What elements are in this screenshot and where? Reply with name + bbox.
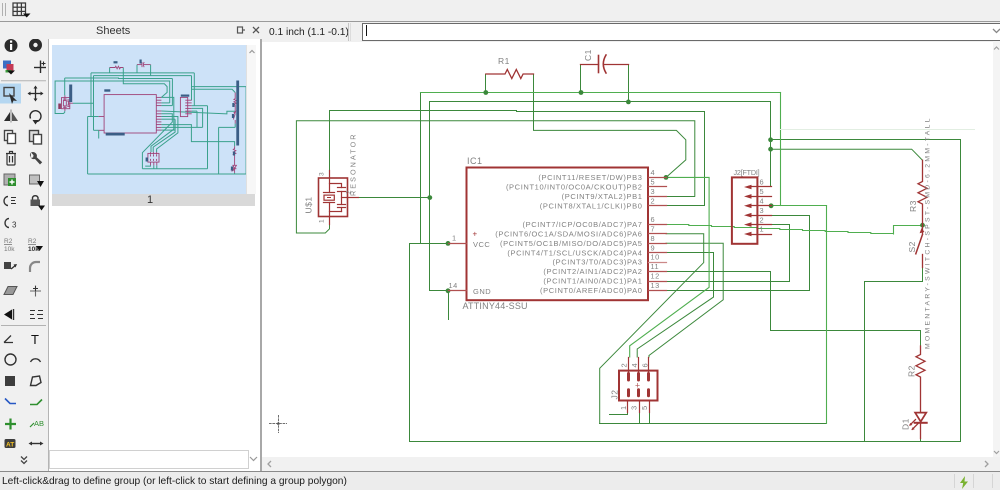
svg-text:S2: S2 [907,241,917,252]
wire IC pin2 row [667,205,705,207]
node IC pin4 reset [664,175,669,180]
svg-text:7: 7 [651,225,656,234]
toolbar grip [2,3,3,16]
svg-text:(PCINT0/AREF/ADC0)PA0: (PCINT0/AREF/ADC0)PA0 [540,286,642,295]
node IC pin1 VCC [446,241,451,246]
svg-text:T: T [31,332,39,347]
second row background [0,22,1000,42]
faint wire top right y=129.2 [781,129,975,131]
wire stub below GND junction [448,291,450,320]
close x [251,25,261,35]
copy icon [5,131,13,141]
green lightning [958,476,970,489]
svg-text:5: 5 [651,178,656,187]
wire IC pin7 / diagonal to ISP area [600,234,704,424]
wire GND to FTDI pin6 vertical x=770.6 [770,102,772,187]
svg-text:6: 6 [760,178,765,187]
pinswap icon [4,197,8,206]
svg-text:12: 12 [651,272,660,281]
svg-text:6: 6 [651,215,656,224]
add icon [4,174,15,185]
svg-text:ATTINY44-SSU: ATTINY44-SSU [463,301,528,311]
node S2 top R3 [920,223,925,228]
mirror icon [4,112,10,121]
wire FTDI pin2 vertical x=789.5 [789,225,791,282]
node IC pin14 GND [446,288,451,293]
wire ISP pin5 bottom [649,413,651,424]
wire XTAL1 horizontal y=110.6 [330,111,705,112]
wire GND branch y=139.8 [771,139,961,141]
svg-text:R2: R2 [4,238,13,245]
wire FTDI pin4 row [772,205,827,207]
svg-text:3: 3 [630,405,639,410]
delete icon [6,152,16,166]
connector J2 ISP header [619,371,658,401]
display layers icon [3,61,11,69]
svg-text:J2: J2 [610,390,620,400]
svg-text:14: 14 [449,281,458,290]
wire VCC right vertical x=780.2 [780,93,782,206]
wire IC pin4 reset row / vertical x=709.1 / diagonal to ISP pin2 [630,177,709,357]
svg-text:MOMENTARY-SWITCH-SPST-SMD-6.2M: MOMENTARY-SWITCH-SPST-SMD-6.2MM-TALL [925,118,932,349]
thumbnail area [52,45,246,194]
toolbar chevrons [21,457,27,464]
wire VCC main horizontal y=92.5 [421,92,781,94]
svg-text:R1: R1 [498,56,510,66]
net icon [30,400,42,405]
switch S2 [922,226,924,234]
sheets panel title [96,25,130,37]
wire VCC left vertical x=420.9 [420,93,422,244]
svg-text:U$1: U$1 [304,196,314,213]
rotate icon [30,111,41,122]
circle icon [5,354,16,365]
eye icon [29,39,42,52]
connector J2 FTDI [732,177,758,243]
wire GND horizontal y=101.9 [430,101,771,103]
miter icon [30,262,40,272]
wire bottom long horizontal y=441.9 [410,441,961,443]
replace icon [30,175,40,184]
wire IC pin11 to R2 [667,272,921,347]
svg-text:3: 3 [760,206,765,215]
svg-text:(PCINT4/T1/SCL/USCK/ADC4)PA4: (PCINT4/T1/SCL/USCK/ADC4)PA4 [507,248,642,257]
IC1 ATTINY44 [467,168,649,301]
wire PA7 sloped line to S2 [666,225,923,235]
svg-text:VCC: VCC [473,240,490,249]
svg-text:1: 1 [619,405,628,410]
wire IC pin8 / diagonal to ISP pin6 [649,243,723,357]
lock icon [31,200,41,207]
svg-text:1: 1 [760,225,765,234]
svg-text:1: 1 [319,219,326,223]
svg-text:4: 4 [651,168,656,177]
svg-text:+: + [635,381,641,391]
resistor R3 [918,160,927,225]
svg-text:IC1: IC1 [467,156,483,166]
svg-text:13: 13 [651,281,660,290]
svg-text:(PCINT5/OC1B/MISO/DO/ADC5)PA5: (PCINT5/OC1B/MISO/DO/ADC5)PA5 [500,239,642,248]
svg-text:(PCINT3/T0/ADC3)PA3: (PCINT3/T0/ADC3)PA3 [553,258,643,267]
svg-text:(PCINT7/ICP/OC0B/ADC7)PA7: (PCINT7/ICP/OC0B/ADC7)PA7 [523,220,643,229]
wire GND row to IC pin14 [430,290,449,292]
split icon [30,311,43,319]
svg-text:5: 5 [640,405,649,410]
resistor R1 [486,70,534,79]
wire GND branch to R3 [771,149,923,160]
svg-text:C1: C1 [583,49,593,61]
svg-text:RESONATOR: RESONATOR [349,134,358,196]
svg-text:AB: AB [34,419,44,428]
status bar [0,471,1000,490]
wire S2 bottom vertical [922,268,924,282]
pin numbers [449,168,765,290]
node FTDI pin4 [769,203,774,208]
wire ISP pin1 bottom [610,413,628,415]
move icon [30,88,41,99]
svg-text:2: 2 [619,363,628,368]
arc icon [31,359,41,362]
svg-text:+: + [473,230,478,239]
wire-arrow icon [4,310,12,320]
bus icon [5,399,16,404]
svg-text:2: 2 [760,215,765,224]
svg-text:(PCINT10/INT0/OC0A/CKOUT)PB2: (PCINT10/INT0/OC0A/CKOUT)PB2 [506,183,643,192]
dimension icon [30,443,42,445]
rect icon [5,376,15,386]
selected tool highlight [0,84,21,104]
canvas [262,42,993,457]
wire resonator pin3 up [329,111,331,171]
svg-text:2: 2 [651,196,656,205]
change wrench icon [30,152,42,164]
svg-text:4: 4 [630,363,639,368]
svg-text:(PCINT6/OC1A/SDA/MOSI/ADC6)PA6: (PCINT6/OC1A/SDA/MOSI/ADC6)PA6 [495,230,642,239]
IC U1 ATTINY44 box [467,168,649,301]
svg-text:1: 1 [452,234,457,243]
wire S2 to bottom rail x=864.7 [864,282,866,442]
attribute icon [5,439,16,448]
thumbnail scrollbar [246,45,256,194]
crosshair icon [30,286,41,297]
wire C1 left lead down [580,65,582,93]
top toolbar row [0,0,1000,22]
polygon outline icon [31,376,42,386]
node GND branch 1 [768,137,773,142]
pin icon [236,25,246,35]
svg-text:10: 10 [651,253,660,262]
bottom scrollbar [262,457,1000,471]
svg-text:R2: R2 [28,238,37,245]
svg-text:3: 3 [12,221,17,230]
label icon [30,423,34,427]
svg-text:(PCINT9/XTAL2)PB1: (PCINT9/XTAL2)PB1 [562,192,643,201]
IC pin name texts [495,173,642,295]
wire VCC down-left vertical x=409.2 [409,244,411,442]
svg-text:5: 5 [760,187,765,196]
node C1 right on GND [626,100,631,105]
wire R1 left lead down [485,75,487,93]
sheets panel [49,39,262,471]
wire ISP pin3 bottom [639,413,641,424]
LED D1 [915,413,926,422]
svg-text:R2: R2 [907,365,917,377]
info icon [5,39,18,52]
wire IC pin12 row y=281.1 [667,281,790,283]
mark origin icon [40,61,42,74]
junction icon [5,419,16,430]
svg-text:11: 11 [651,262,660,271]
wire GND vertical x=429.8 [429,102,431,291]
wire C1 right lead down [628,65,630,102]
line icon [4,336,13,343]
svg-text:R3: R3 [908,200,918,212]
wire resonator pin2 to GND vertical [359,197,430,199]
capacitor C1 [581,64,599,66]
wire FTDI pin3 row and vertical x=809.2 [772,216,810,291]
node resonator pin2 [427,195,432,200]
polygon icon [4,287,17,295]
IC1 right pin stubs [649,177,667,179]
resistor R2 [916,346,925,412]
node R1 left on VCC [483,90,488,95]
svg-text:(PCINT1/AIN0/ADC1)PA1: (PCINT1/AIN0/ADC1)PA1 [543,277,642,286]
wire ISP bottom horizontal y=423.5 [600,423,827,425]
coordinate display [262,22,348,42]
svg-text:(PCINT11/RESET/DW)PB3: (PCINT11/RESET/DW)PB3 [538,173,642,182]
node C1 left on VCC [579,90,584,95]
svg-text:3: 3 [319,172,326,176]
svg-text:(PCINT8/XTAL1/CLKI)PB0: (PCINT8/XTAL1/CLKI)PB0 [540,201,643,210]
wire IC pin3 row [667,196,695,198]
wire IC pin9 / vertical x=713.5 [667,252,714,254]
svg-text:6: 6 [640,363,649,368]
grid button icon [11,1,33,20]
wire XTAL1 vertical x=704 [704,112,706,206]
paste icon [30,131,39,142]
svg-text:(PCINT2/AIN1/ADC2)PA2: (PCINT2/AIN1/ADC2)PA2 [543,267,642,276]
svg-text:J2[FTDI]: J2[FTDI] [734,168,760,177]
wire VCC vertical x=826.3 [826,206,828,424]
wire IC pin13 row [667,290,810,292]
svg-text:D1: D1 [901,418,911,430]
node GND branch 2 [768,147,773,152]
smash icon [4,262,11,269]
wire LED bottom lead [920,439,922,442]
svg-text:3: 3 [651,187,656,196]
svg-text:GND: GND [473,287,491,296]
svg-text:8: 8 [651,234,656,243]
command input box [362,23,1000,41]
wire VCC row to IC pin1 [410,243,449,245]
left toolbar background [0,39,49,471]
resonator U$1 [319,178,348,217]
wire R1 right lead / reset to IC pin4 [534,74,686,177]
ISP pin labels [610,363,650,410]
svg-text:10k: 10k [4,246,15,253]
group select icon [4,88,14,97]
svg-text:AT: AT [6,442,14,449]
wire resonator pin1 loop [296,121,694,233]
wire GND right vertical x=960.5 [960,140,962,442]
sheet 1 bar [52,194,255,206]
right scrollbar [993,41,1000,457]
crosshair cursor [270,416,287,433]
wire FTDI pin2 row [772,224,790,226]
bottom mini combo [49,450,249,469]
svg-text:9: 9 [651,243,656,252]
gateswap icon [5,219,9,228]
IC1 left pin stubs [449,243,467,245]
wire S2 bottom horizontal y=281.1 [865,281,923,283]
svg-text:4: 4 [760,197,765,206]
